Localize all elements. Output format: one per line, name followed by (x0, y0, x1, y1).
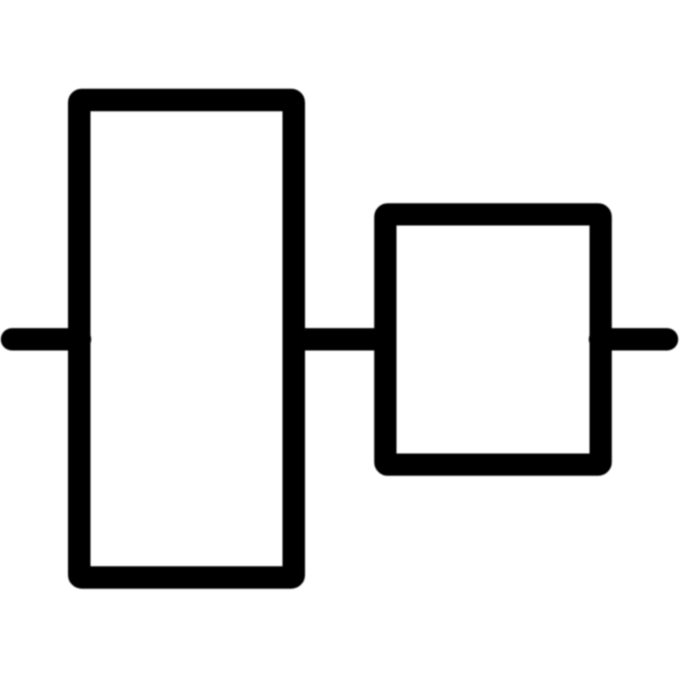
wire: left stub (12, 328, 80, 350)
wire: right stub (600, 328, 667, 350)
tall rectangle (79, 100, 294, 578)
wire: middle segment (290, 328, 390, 350)
small rectangle (385, 214, 600, 464)
